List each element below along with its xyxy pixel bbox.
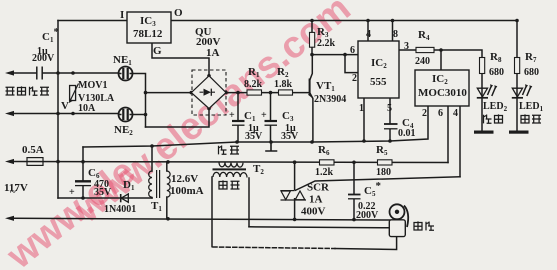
svg-text:~: ~ [10,186,16,198]
timer IC2 555 [358,41,399,98]
wire: 555 pin6 line [312,54,358,56]
wire: bell return dashed [213,247,335,249]
resistor R7 680 [515,58,520,74]
svg-text:5: 5 [387,103,392,114]
capacitor C3 1u 35V [265,121,278,125]
wire: MOC3010 pin1 [440,50,442,70]
svg-text:200V: 200V [32,53,55,64]
resistor R4 240 [416,47,434,52]
wire: R3 vertical [311,21,313,55]
svg-text:1A: 1A [309,194,323,206]
svg-text:8: 8 [393,29,398,40]
capacitor C4 0.01 [384,124,398,129]
wire: 555 pin5 through C4 [389,98,391,141]
wire: VT1 collector [310,55,313,81]
wire: D1 line [58,197,152,199]
arrows (line terminals) [5,70,14,221]
wire: MOC3010 pin4 drop [459,106,461,177]
svg-text:180: 180 [376,167,391,178]
svg-text:6: 6 [350,45,355,56]
bridge rectifier QU [190,70,228,115]
wire: phone line 1 [13,72,119,74]
wire: bridge + output to R1 R2 VT1 base [226,92,309,94]
wire: bell return solid [335,237,397,250]
svg-text:2: 2 [352,73,357,84]
wire: MOC3010 pin6 drop [447,106,449,163]
svg-text:0.01: 0.01 [398,128,416,139]
wire: R8 to LED2 to terminal [481,74,483,132]
wire: 555 pin2 branch [345,55,358,73]
svg-text:I: I [120,9,124,21]
resistor R2 1.8k [279,90,293,95]
resistor R3 2.2k [310,32,315,47]
svg-text:6: 6 [438,108,443,119]
svg-text:10A: 10A [78,103,96,114]
watermark www.ele (bottom-left) [0,150,144,270]
transformer T1 [149,170,170,198]
svg-text:MOV1: MOV1 [78,80,107,91]
transistor VT1 2N3904 [308,79,313,99]
wire: left vertical rail x=58 [57,21,59,199]
wire: C6 vertical [82,147,84,198]
wire: 555 pin8 [392,21,394,42]
svg-text:4: 4 [366,29,371,40]
svg-text:2.2k: 2.2k [317,38,336,49]
neon NE2 [119,108,133,122]
capacitor C5* 0.22 200V [348,195,361,199]
svg-text:1: 1 [359,103,364,114]
regulator IC3 78L12 [127,12,171,43]
svg-text:3: 3 [404,41,409,52]
svg-text:12.6V: 12.6V [171,173,198,185]
fuse 0.5A [27,158,43,166]
ground symbol [266,142,277,151]
svg-text:+: + [69,187,75,198]
wire: ground bus line [83,106,428,147]
svg-text:555: 555 [370,76,387,88]
wire: C1 vertical [237,93,239,142]
svg-text:35V: 35V [94,187,112,198]
wire: phone line 2 [13,113,119,115]
svg-text:1A: 1A [206,47,220,59]
svg-text:O: O [174,7,183,19]
svg-text:0.5A: 0.5A [22,144,44,156]
svg-text:400V: 400V [301,206,326,218]
LED1 [512,84,533,98]
neon NE1 [119,67,133,81]
svg-text:78L12: 78L12 [133,28,163,40]
varistor MOV1 [69,84,79,104]
wire: R7 to LED1 to terminal [516,74,518,132]
wire: NE1 to bridge left vertex [132,74,191,128]
SCR 1A 400V [281,191,307,200]
svg-text:240: 240 [415,56,430,67]
wire: 555 pin3 through R4 to R8 drop [399,50,482,58]
svg-text:SCR: SCR [307,182,330,194]
wire: IC3 G to bridge top vertex [152,43,209,76]
CJK: 电源 [521,114,541,123]
svg-text:117V: 117V [4,182,28,194]
svg-text:1.2k: 1.2k [315,167,334,178]
wire: VT1 emitter [310,93,313,143]
resistor R6 1.2k [320,160,335,165]
CJK: 电铃 [414,221,434,230]
LED1 terminal bar [509,131,529,134]
svg-text:V: V [61,100,69,112]
svg-text:680: 680 [524,67,539,78]
wire: C5 vertical [353,162,355,219]
transformer T2 [213,162,248,177]
svg-text:100mA: 100mA [170,185,204,197]
svg-text:8.2k: 8.2k [244,79,263,90]
wire: 117V fused line [13,162,448,163]
diode D1 1N4001 [121,194,129,202]
svg-text:4: 4 [453,108,458,119]
resistor R1 8.2k [247,90,262,95]
capacitor C1* (1u 200V) [37,67,42,80]
svg-text:200V: 200V [356,210,379,221]
svg-text:680: 680 [489,67,504,78]
resistor R8 680 [480,58,485,74]
CJK: 至电话线 [6,86,50,95]
LED2 terminal bar [474,131,494,134]
bell [389,204,408,236]
wire: T2 secondary left drop [211,177,213,247]
svg-text:2N3904: 2N3904 [314,94,346,105]
wire: SCR anode cathode [294,162,296,219]
capacitor C6 470u 35V [75,181,91,185]
svg-text:+: + [229,110,235,121]
CJK: 次级 [219,180,240,189]
LED2 [477,84,498,98]
wire: T1 right winding leads [166,162,168,219]
svg-text:+: + [261,110,267,121]
wire: 555 pin4 [367,21,369,42]
svg-text:2: 2 [422,108,427,119]
wire: C3 vertical [270,93,272,142]
CJK: 报铃 [484,114,503,123]
wire: bell drive line [249,227,390,228]
resistor R5 180 [378,160,393,165]
wire: T1 left winding leads [151,146,153,198]
wire: right drop to R7 [516,21,518,58]
wire: 117V return line [13,218,390,220]
capacitor C1 1u 35V [232,121,245,125]
wire: +12V top rail [58,20,517,22]
wire: NE2 to bridge bottom vertex [133,109,210,128]
svg-text:35V: 35V [281,131,299,142]
wire: SCR gate line [296,177,461,191]
CJK: 初级 [219,146,240,155]
svg-text:MOC3010: MOC3010 [418,87,467,99]
svg-text:35V: 35V [245,131,263,142]
optocoupler IC2 MOC3010 [415,70,469,106]
wire: 555 pin1 to ground bus [363,98,365,141]
svg-text:1N4001: 1N4001 [104,204,136,215]
wire: T2 secondary right drop [248,178,250,227]
watermark www.elecfans.com (main diagonal) [67,0,359,232]
svg-text:1.8k: 1.8k [274,79,293,90]
svg-text:G: G [153,45,162,57]
